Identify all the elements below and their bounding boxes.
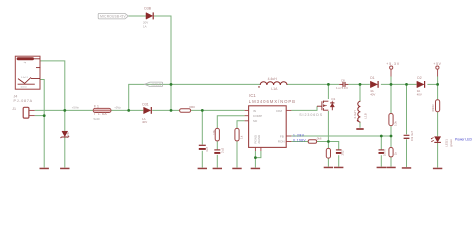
svg-text:AGND: AGND [257, 134, 261, 144]
svg-text:C9 4u7: C9 4u7 [410, 131, 414, 141]
svg-text:1A: 1A [143, 25, 147, 29]
svg-text:D2: D2 [417, 76, 421, 80]
svg-text:1.28V: 1.28V [293, 133, 305, 137]
svg-text:5V6: 5V6 [66, 132, 70, 138]
svg-text:+5VBUS: +5VBUS [151, 83, 162, 87]
svg-text:4.4uH: 4.4uH [268, 77, 278, 81]
svg-text:LED1: LED1 [444, 139, 448, 147]
svg-text:PJ-087A: PJ-087A [14, 99, 33, 103]
svg-text:+5Vin: +5Vin [72, 106, 80, 110]
svg-text:5x20: 5x20 [94, 117, 101, 121]
svg-text:J4: J4 [14, 94, 18, 98]
svg-text:10k: 10k [212, 129, 216, 134]
svg-text:DIM: DIM [276, 109, 282, 113]
svg-text:0k6: 0k6 [317, 137, 322, 141]
svg-text:green: green [449, 139, 453, 147]
svg-text:100n: 100n [383, 149, 387, 156]
svg-text:J1: J1 [12, 107, 16, 111]
svg-text:IC1: IC1 [249, 93, 256, 98]
svg-text:4u7: 4u7 [205, 147, 209, 152]
svg-text:1k: 1k [239, 135, 243, 139]
svg-text:Power LED: Power LED [455, 138, 472, 142]
svg-text:0.198V: 0.198V [293, 139, 306, 143]
svg-text:L1A: L1A [271, 87, 278, 91]
svg-text:40V: 40V [370, 92, 375, 96]
svg-text:330R: 330R [431, 104, 435, 112]
svg-text:L1B: L1B [364, 113, 368, 119]
svg-text:10k: 10k [393, 121, 397, 126]
svg-text:sleeve: sleeve [21, 86, 28, 88]
svg-text:C8: C8 [341, 79, 345, 83]
svg-text:D3B: D3B [144, 7, 151, 11]
svg-text:MICROUSB+5V: MICROUSB+5V [100, 15, 126, 19]
svg-text:+5V: +5V [433, 62, 441, 66]
svg-text:SI2306DS: SI2306DS [299, 113, 323, 117]
svg-text:5.5x2.1: 5.5x2.1 [21, 77, 29, 79]
svg-text:1u/50V: 1u/50V [336, 86, 348, 90]
svg-text:4.4uH: 4.4uH [353, 110, 357, 118]
svg-text:2u2: 2u2 [220, 148, 224, 153]
svg-text:D1: D1 [370, 76, 374, 80]
svg-text:RON: RON [278, 140, 285, 144]
svg-text:D31: D31 [142, 103, 148, 107]
svg-text:SD: SD [253, 119, 258, 123]
svg-text:+5Vp: +5Vp [114, 106, 121, 110]
svg-text:IN: IN [253, 109, 256, 113]
svg-text:+5.3V: +5.3V [386, 62, 400, 66]
svg-text:1k: 1k [394, 151, 398, 155]
svg-text:LM3406MX/NOPB: LM3406MX/NOPB [249, 99, 295, 104]
svg-text:40V: 40V [142, 120, 147, 124]
svg-text:T 1.6A: T 1.6A [94, 112, 108, 116]
svg-text:FB: FB [280, 134, 284, 138]
svg-text:0R0: 0R0 [189, 105, 195, 109]
svg-text:2u2: 2u2 [341, 150, 345, 155]
svg-text:Q1: Q1 [331, 97, 335, 101]
svg-text:F 1: F 1 [94, 104, 99, 108]
svg-text:COMP: COMP [253, 114, 262, 118]
svg-text:40V: 40V [417, 92, 422, 96]
